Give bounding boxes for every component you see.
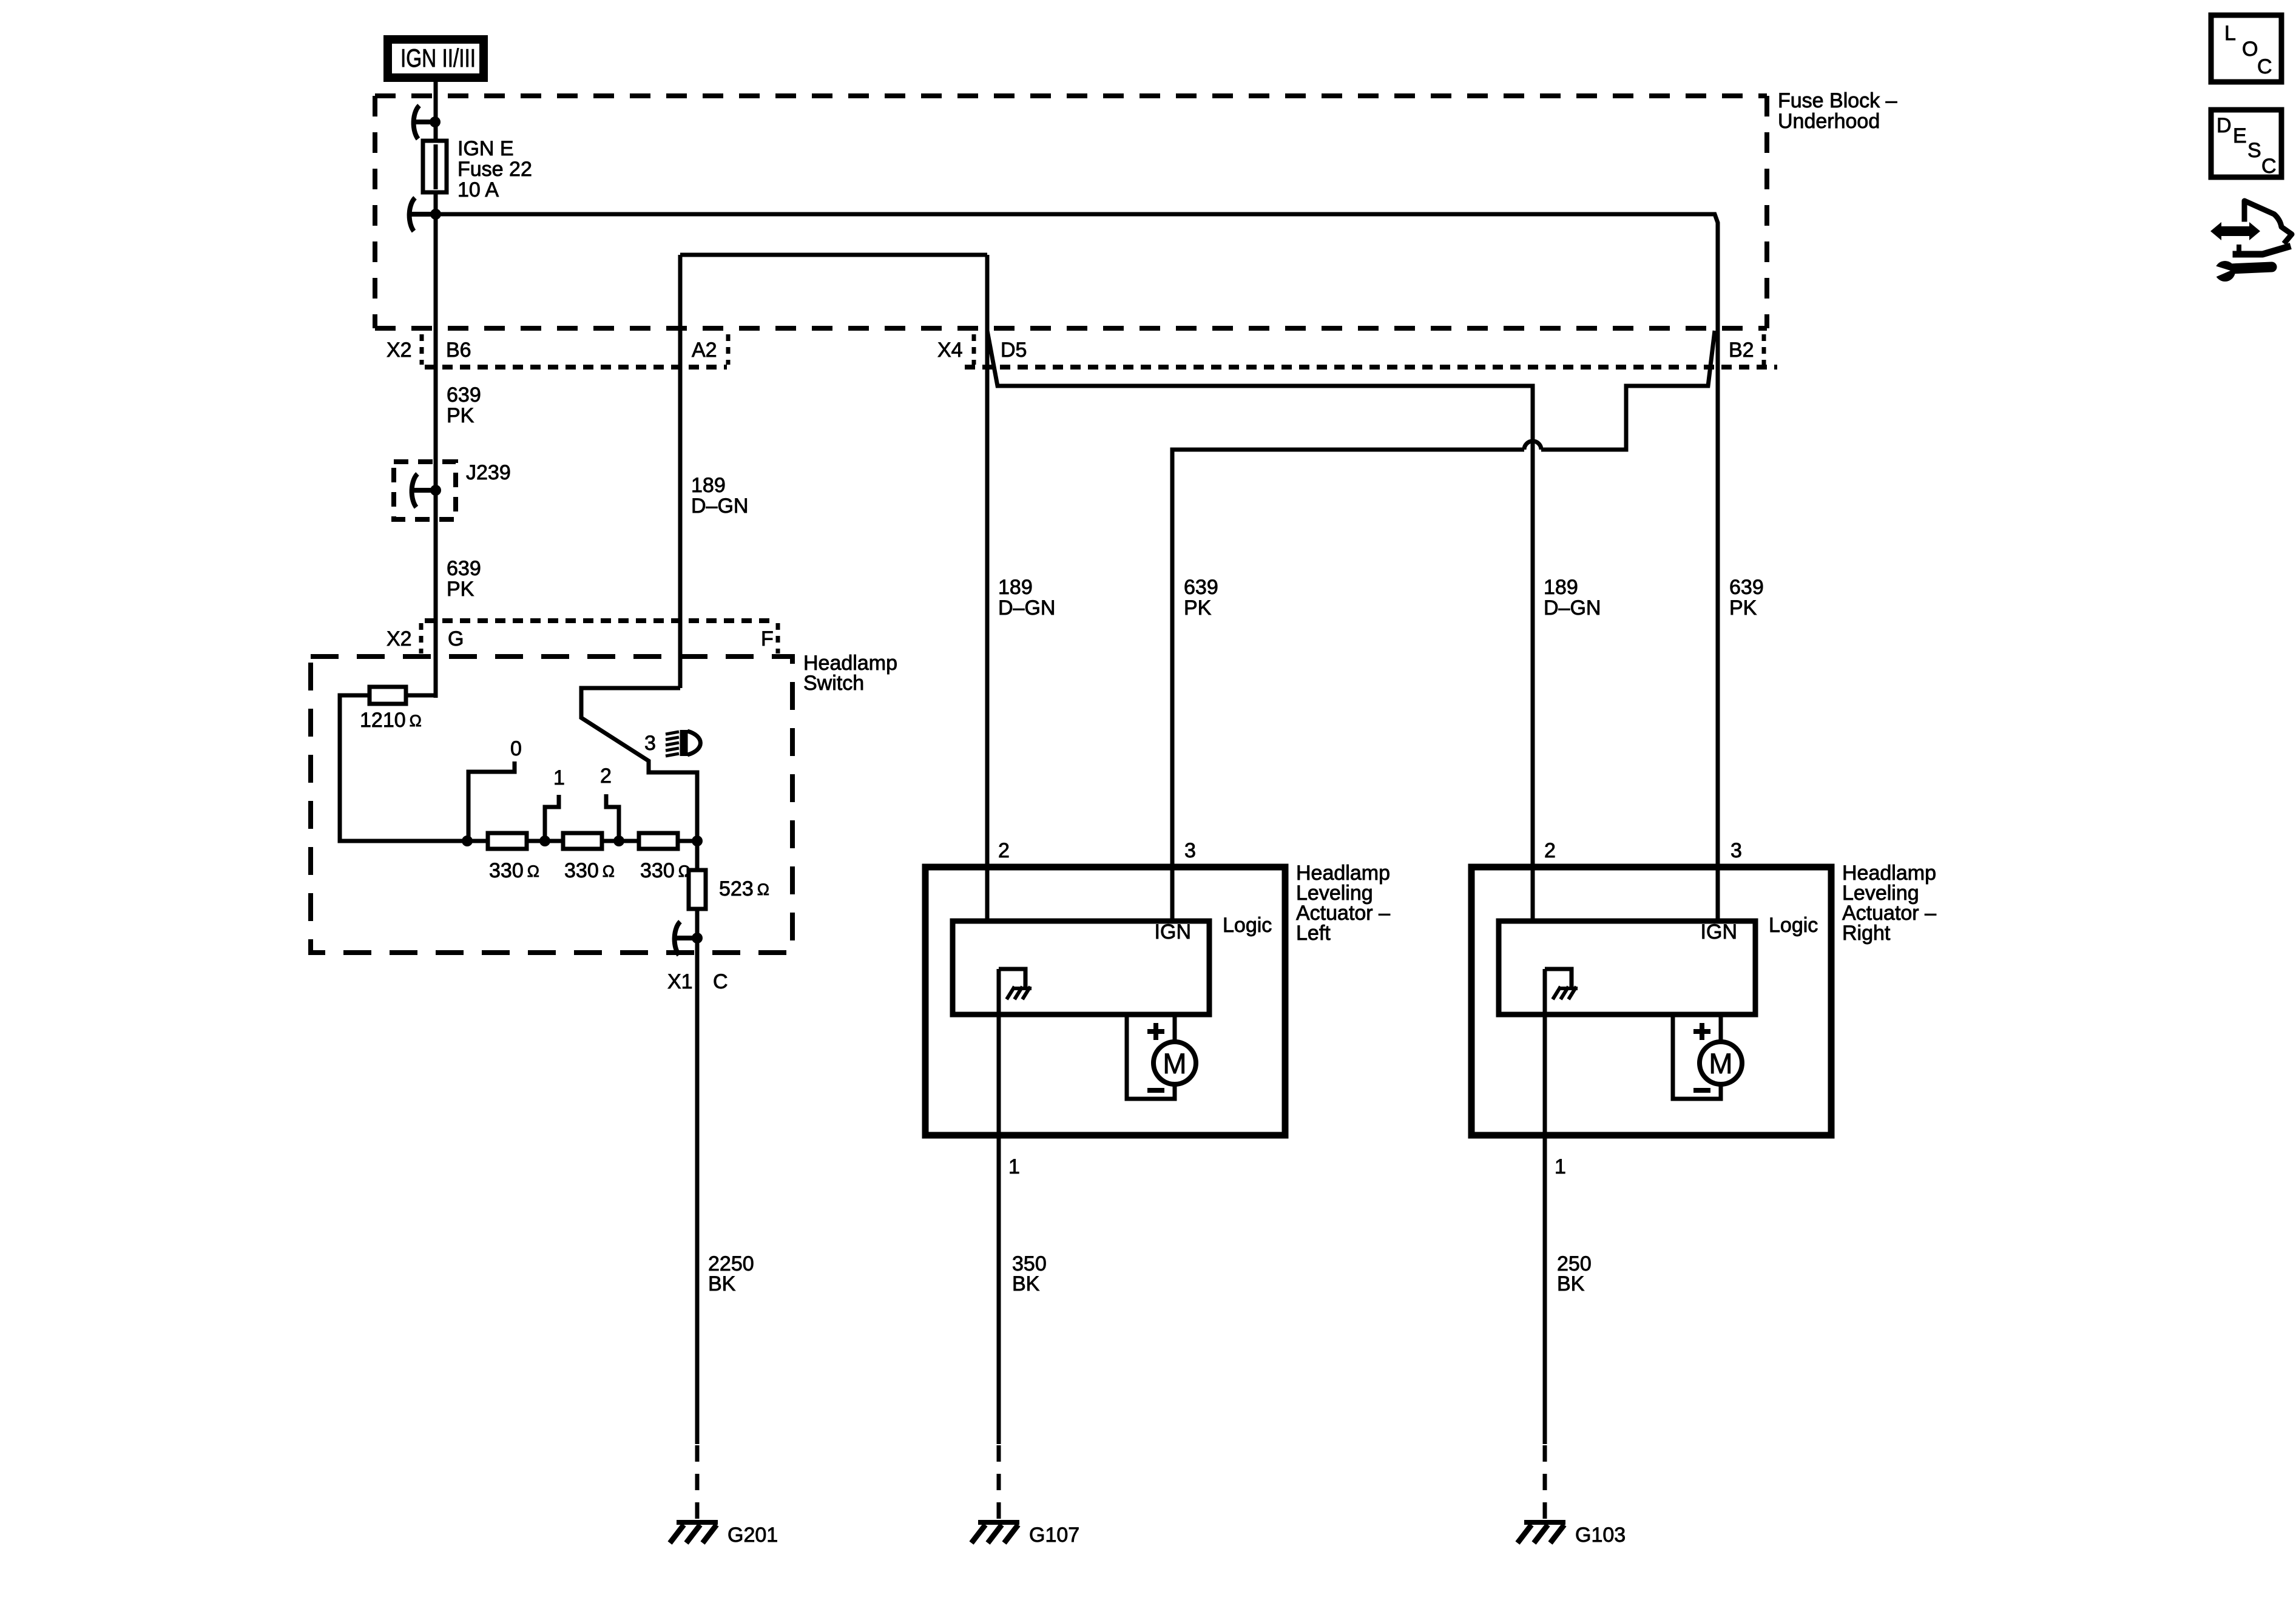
svg-text:X2: X2 bbox=[387, 339, 412, 362]
svg-text:639: 639 bbox=[447, 383, 481, 407]
svg-text:PK: PK bbox=[447, 404, 474, 427]
wire: internal bus A2 to D5 bbox=[680, 253, 987, 257]
wire: pin 1 ground wire (left actuator) bbox=[997, 969, 1001, 1444]
svg-text:2: 2 bbox=[1544, 839, 1556, 862]
power tag IGN II/III bbox=[388, 39, 484, 78]
svg-text:1: 1 bbox=[1008, 1155, 1020, 1178]
resistor chain bus bbox=[467, 839, 697, 843]
right actuator logic box bbox=[1499, 921, 1755, 1014]
svg-text:IGN: IGN bbox=[1155, 920, 1191, 944]
adjustment icon: hand outline bbox=[2236, 201, 2292, 254]
svg-text:639: 639 bbox=[447, 557, 481, 580]
DESC reference box bbox=[2211, 110, 2281, 178]
wire: A2 drop (circuit 189) down to headlamp switch pin F bbox=[678, 255, 683, 688]
ground G103 bbox=[1518, 1522, 1565, 1543]
svg-text:639: 639 bbox=[1184, 576, 1218, 599]
svg-text:X4: X4 bbox=[937, 339, 963, 362]
svg-text:3: 3 bbox=[1730, 839, 1742, 862]
svg-text:E: E bbox=[2233, 124, 2247, 147]
svg-text:IGN: IGN bbox=[1701, 920, 1737, 944]
svg-text:Fuse Block –: Fuse Block – bbox=[1778, 89, 1897, 112]
ground G201 bbox=[670, 1522, 718, 1543]
svg-text:Right: Right bbox=[1842, 922, 1891, 945]
svg-text:X1: X1 bbox=[667, 970, 693, 993]
LOC reference box bbox=[2211, 15, 2281, 82]
fuse IGN E Fuse 22 10A bbox=[423, 137, 532, 201]
svg-text:BK: BK bbox=[1012, 1272, 1040, 1295]
svg-text:D: D bbox=[2217, 114, 2232, 137]
internal ground symbol (left actuator) bbox=[999, 969, 1032, 999]
motor leads (left) bbox=[1127, 1014, 1175, 1099]
minus sign (left motor) bbox=[1147, 1088, 1164, 1093]
svg-text:1210Ω: 1210Ω bbox=[360, 709, 422, 732]
svg-text:C: C bbox=[2261, 155, 2277, 178]
svg-text:G107: G107 bbox=[1029, 1524, 1079, 1547]
motor M (left) bbox=[1153, 1042, 1196, 1084]
svg-text:C: C bbox=[2257, 55, 2272, 78]
svg-text:Left: Left bbox=[1296, 922, 1331, 945]
svg-text:523Ω: 523Ω bbox=[719, 877, 769, 900]
svg-text:Logic: Logic bbox=[1223, 914, 1272, 937]
resistor 330 ohm (2) bbox=[563, 833, 602, 849]
svg-text:2: 2 bbox=[998, 839, 1010, 862]
svg-text:D5: D5 bbox=[1001, 339, 1027, 362]
headlamp beam icon bbox=[666, 730, 700, 756]
svg-text:S: S bbox=[2247, 139, 2261, 162]
svg-text:1: 1 bbox=[553, 766, 565, 789]
svg-text:Switch: Switch bbox=[803, 672, 864, 695]
svg-text:J239: J239 bbox=[466, 461, 511, 484]
connector terminal above fuse (female hook) bbox=[413, 106, 441, 139]
wire: B2 drop (circuit 639) down to right actuator pin 3 bbox=[1716, 331, 1720, 921]
svg-text:M: M bbox=[1709, 1047, 1732, 1079]
svg-text:2: 2 bbox=[600, 765, 612, 788]
connector terminal below fuse (female hook) bbox=[408, 198, 441, 231]
svg-text:3: 3 bbox=[644, 732, 656, 755]
svg-text:D–GN: D–GN bbox=[998, 596, 1055, 619]
wire: long horizontal feed to B2 (inside fuse block) bbox=[436, 214, 1718, 331]
ground G107 bbox=[971, 1522, 1019, 1543]
svg-text:M: M bbox=[1163, 1047, 1186, 1079]
wire: rheostat feed inside switch bbox=[340, 695, 467, 841]
svg-text:330Ω: 330Ω bbox=[640, 859, 690, 882]
dashed wire end to G103 bbox=[1543, 1445, 1547, 1522]
headlamp leveling actuator - right: outer box bbox=[1471, 867, 1831, 1135]
motor leads (right) bbox=[1673, 1014, 1721, 1099]
wire: pin 1 ground wire (right actuator) bbox=[1543, 969, 1547, 1444]
node: bus junction dots bbox=[462, 836, 473, 846]
wire: D5 branch to right actuator pin 2 bbox=[987, 331, 1533, 921]
left actuator logic box bbox=[953, 921, 1209, 1014]
plus sign (right motor) bbox=[1693, 1023, 1710, 1040]
splice J239 dashed box bbox=[394, 462, 456, 519]
wire: wiper common down through 523 bbox=[695, 841, 700, 1444]
minus sign (right motor) bbox=[1693, 1088, 1710, 1093]
wire: D5 drop (circuit 189) down to left actuator pin 2 bbox=[985, 255, 990, 921]
dashed wire end to G201 bbox=[695, 1445, 700, 1522]
svg-text:BK: BK bbox=[708, 1272, 736, 1295]
wire: B2 branch to left actuator pin 3 (with hop over D-GN wire) bbox=[1541, 331, 1715, 450]
adjustment icon: wrench bbox=[2211, 261, 2272, 282]
headlamp leveling actuator - left: outer box bbox=[925, 867, 1285, 1135]
svg-text:F: F bbox=[761, 627, 774, 650]
connector row X2 | G ... F above headlamp switch bbox=[425, 618, 777, 623]
svg-text:PK: PK bbox=[1729, 596, 1757, 619]
dashed wire end to G107 bbox=[997, 1445, 1001, 1522]
wire hop over vertical at x=2526 bbox=[1524, 441, 1541, 450]
connector pocket dotted lines bbox=[425, 365, 1777, 370]
svg-text:G: G bbox=[448, 627, 464, 650]
svg-text:10 A: 10 A bbox=[458, 178, 499, 201]
motor M (right) bbox=[1700, 1042, 1742, 1084]
svg-text:G201: G201 bbox=[728, 1524, 778, 1547]
svg-text:D–GN: D–GN bbox=[1544, 596, 1601, 619]
svg-text:Underhood: Underhood bbox=[1778, 110, 1880, 133]
wire: IGN feed vertical (circuit 639) from IGN II/III tag down through fuse bbox=[434, 78, 438, 698]
svg-text:PK: PK bbox=[1184, 596, 1212, 619]
resistor 1210 ohm bbox=[370, 687, 406, 704]
svg-text:L: L bbox=[2224, 22, 2236, 45]
plus sign (left motor) bbox=[1147, 1023, 1164, 1040]
svg-text:X2: X2 bbox=[387, 627, 412, 650]
svg-text:IGN II/III: IGN II/III bbox=[400, 44, 476, 72]
internal ground symbol (right actuator) bbox=[1545, 969, 1578, 999]
svg-text:1: 1 bbox=[1555, 1155, 1566, 1178]
headlamp switch dashed box bbox=[311, 657, 792, 953]
resistor 330 ohm (1) bbox=[488, 833, 527, 849]
svg-text:189: 189 bbox=[998, 576, 1033, 599]
svg-text:Fuse 22: Fuse 22 bbox=[458, 158, 532, 181]
svg-text:639: 639 bbox=[1729, 576, 1764, 599]
svg-text:330Ω: 330Ω bbox=[489, 859, 539, 882]
svg-text:IGN E: IGN E bbox=[458, 137, 514, 160]
svg-text:0: 0 bbox=[510, 737, 522, 760]
svg-text:O: O bbox=[2242, 38, 2258, 61]
svg-text:BK: BK bbox=[1557, 1272, 1585, 1295]
svg-text:B2: B2 bbox=[1729, 339, 1754, 362]
svg-text:330Ω: 330Ω bbox=[564, 859, 615, 882]
switch wiper from pin F bbox=[581, 688, 697, 841]
svg-text:G103: G103 bbox=[1575, 1524, 1626, 1547]
svg-text:189: 189 bbox=[1544, 576, 1578, 599]
adjustment icon: double arrow bbox=[2210, 222, 2260, 240]
connector terminal hook at switch output bbox=[674, 922, 703, 955]
svg-text:Logic: Logic bbox=[1769, 914, 1818, 937]
splice J239 terminal hook bbox=[411, 474, 441, 507]
svg-text:3: 3 bbox=[1184, 839, 1196, 862]
resistor 523 ohm bbox=[689, 870, 706, 909]
resistor 330 ohm (3) bbox=[639, 833, 678, 849]
svg-text:B6: B6 bbox=[446, 339, 471, 362]
svg-text:189: 189 bbox=[691, 474, 726, 497]
fuse block - underhood dashed box bbox=[375, 96, 1767, 328]
svg-text:A2: A2 bbox=[692, 339, 717, 362]
svg-text:PK: PK bbox=[447, 578, 474, 601]
svg-text:C: C bbox=[713, 970, 728, 993]
svg-text:D–GN: D–GN bbox=[691, 495, 748, 518]
